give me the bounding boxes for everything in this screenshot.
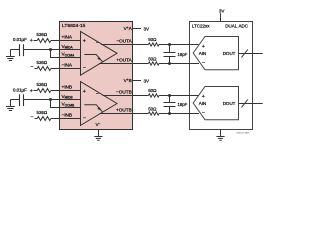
ADC channel B AIN block (193, 87, 238, 120)
wire −OUTB to R5 (103, 95, 199, 97)
resistor R4 50Ω (148, 62, 159, 65)
svg-text:18pF: 18pF (178, 52, 188, 57)
resistor R5 50Ω (148, 94, 159, 97)
wire VMIDB to VOCMB (51, 100, 81, 108)
svg-text:660415 TA01: 660415 TA01 (237, 131, 251, 134)
svg-text:536Ω: 536Ω (37, 82, 48, 87)
svg-text:VOCMA: VOCMA (62, 52, 76, 58)
svg-text:536Ω: 536Ω (37, 60, 48, 65)
wire −INB (35, 118, 81, 120)
wire VMIDA (11, 49, 81, 51)
bus slash B (242, 100, 248, 108)
svg-text:−: − (202, 110, 205, 116)
svg-text:AIN: AIN (199, 51, 207, 56)
svg-text:−: − (83, 65, 86, 71)
svg-text:50Ω: 50Ω (148, 56, 157, 61)
op-amp B lowpass response curve (84, 105, 102, 112)
ground GND channel A (6, 50, 15, 61)
svg-text:+: + (30, 38, 33, 44)
node VMIDB/VOCMB tie (49, 98, 52, 101)
wire +INB (34, 90, 81, 92)
svg-text:3V: 3V (144, 78, 150, 83)
wire VMIDA to VOCMA (51, 50, 81, 58)
svg-text:536Ω: 536Ω (37, 110, 48, 115)
wire DOUT A bus (239, 53, 263, 55)
bus slash A (242, 50, 248, 58)
node C4 top (168, 94, 171, 97)
svg-text:LT6604-15: LT6604-15 (62, 23, 86, 29)
resistor R2 536Ω (37, 67, 51, 71)
svg-text:50Ω: 50Ω (148, 37, 157, 42)
svg-text:+: + (30, 88, 33, 94)
svg-text:−: − (83, 115, 86, 121)
op-amp B triangle (81, 82, 118, 126)
svg-text:50Ω: 50Ω (148, 106, 157, 111)
svg-text:−: − (30, 64, 33, 70)
node C3 top (168, 43, 171, 46)
capacitor C2 0.01µF (20, 94, 24, 106)
op-amp A triangle (81, 31, 118, 75)
capacitor C3 18pF (164, 45, 176, 64)
svg-text:DUAL ADC: DUAL ADC (225, 23, 249, 28)
svg-text:−: − (96, 91, 99, 97)
ADC U2 LTC22xx body (190, 22, 253, 130)
svg-text:536Ω: 536Ω (37, 32, 48, 37)
svg-text:V+A: V+A (124, 26, 133, 31)
svg-text:−: − (30, 114, 33, 120)
svg-text:0.01µF: 0.01µF (13, 87, 27, 92)
svg-text:−INA: −INA (62, 63, 73, 68)
IC U1 LT6604-15 body (60, 22, 133, 130)
wire DOUT B bus (239, 103, 263, 105)
ground GND chip (94, 137, 102, 141)
svg-text:−: − (96, 40, 99, 46)
svg-text:+INA: +INA (62, 34, 73, 39)
resistor R7 536Ω (37, 89, 51, 93)
wire V+B to 3V (133, 80, 141, 82)
svg-text:−OUTB: −OUTB (116, 89, 132, 94)
resistor R6 50Ω (148, 112, 159, 115)
svg-text:−: − (202, 60, 205, 66)
svg-text:+OUTA: +OUTA (116, 57, 132, 62)
svg-text:VOCMB: VOCMB (62, 102, 75, 108)
svg-text:+OUTB: +OUTB (116, 107, 132, 112)
wire +OUTB to R6 (100, 113, 200, 115)
svg-text:50Ω: 50Ω (148, 88, 157, 93)
wire 3V to ADC (220, 13, 222, 21)
wire V+A to 3V (133, 28, 141, 30)
svg-text:+: + (98, 56, 101, 62)
wire VMIDB (11, 99, 81, 101)
resistor R8 536Ω (37, 117, 51, 121)
svg-text:AIN: AIN (199, 101, 207, 106)
svg-text:−INB: −INB (62, 113, 73, 118)
svg-text:VMIDA: VMIDA (62, 44, 74, 50)
wire +INA (34, 40, 81, 42)
ADC channel A AIN block (193, 37, 238, 70)
svg-text:+: + (83, 89, 86, 95)
svg-text:+: + (202, 44, 205, 50)
svg-text:3V: 3V (219, 8, 225, 13)
svg-text:0.01µF: 0.01µF (13, 37, 27, 42)
node VMIDA/VOCMA tie (49, 48, 52, 51)
ground GND channel B (6, 100, 15, 111)
wire +OUTA to R4 (99, 63, 199, 65)
node C3 bottom (168, 62, 171, 65)
svg-text:+: + (98, 106, 101, 112)
svg-text:VMIDB: VMIDB (62, 94, 73, 100)
svg-text:DOUT: DOUT (223, 101, 236, 106)
resistor R1 536Ω (37, 39, 51, 43)
capacitor C4 18pF (164, 96, 176, 114)
svg-text:LTC22xx: LTC22xx (192, 23, 210, 28)
svg-text:+INB: +INB (62, 84, 73, 89)
op-amp A lowpass response curve (84, 55, 102, 62)
wire −INA (35, 68, 81, 70)
node C4 bottom (168, 112, 171, 115)
capacitor C1 0.01µF (20, 44, 24, 56)
svg-text:+: + (202, 94, 205, 100)
wire −OUTA to R3 (101, 44, 199, 46)
svg-text:DOUT: DOUT (223, 51, 236, 56)
svg-text:18pF: 18pF (178, 102, 188, 107)
svg-text:V+B: V+B (124, 78, 132, 83)
svg-text:3V: 3V (144, 26, 150, 31)
resistor R3 50Ω (148, 43, 159, 46)
ground GND ADC (216, 130, 224, 141)
svg-text:+: + (83, 39, 86, 45)
wire V− to ground (98, 130, 100, 137)
svg-text:−OUTA: −OUTA (116, 38, 132, 43)
